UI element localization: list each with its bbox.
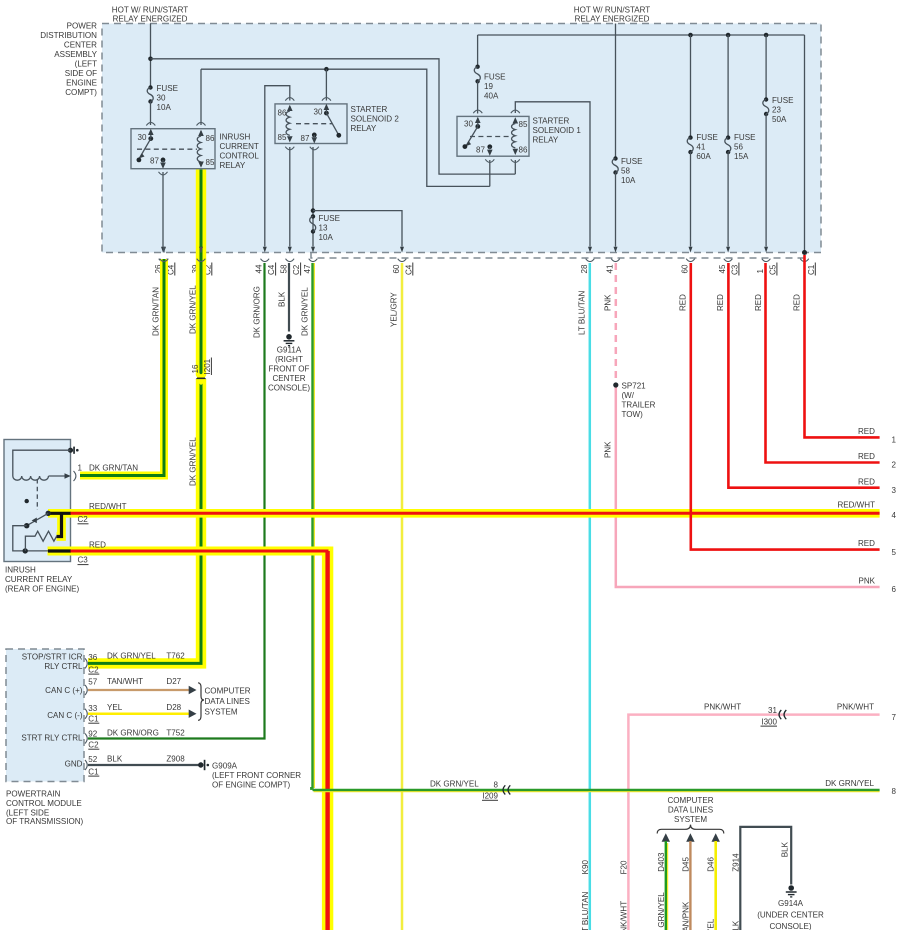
svg-text:31: 31 — [768, 706, 777, 715]
svg-text:15A: 15A — [734, 152, 749, 161]
svg-text:8: 8 — [892, 787, 897, 796]
svg-text:RED/WHT: RED/WHT — [837, 501, 875, 510]
svg-text:YEL/GRY: YEL/GRY — [390, 292, 399, 327]
svg-text:86: 86 — [519, 146, 528, 155]
svg-text:BLK: BLK — [107, 755, 123, 764]
svg-text:BLK: BLK — [277, 291, 286, 307]
svg-text:RELAY: RELAY — [533, 136, 559, 145]
svg-text:RELAY ENERGIZED: RELAY ENERGIZED — [113, 15, 188, 24]
svg-text:FUSE: FUSE — [484, 73, 506, 82]
svg-text:FUSE: FUSE — [696, 133, 718, 142]
svg-text:4: 4 — [892, 511, 897, 520]
svg-text:BLK: BLK — [781, 841, 790, 857]
svg-text:F20: F20 — [620, 860, 629, 874]
svg-text:COMPUTER: COMPUTER — [667, 796, 713, 805]
svg-text:8: 8 — [494, 781, 499, 790]
svg-text:DK GRN/TAN: DK GRN/TAN — [89, 464, 138, 473]
svg-text:10A: 10A — [319, 233, 334, 242]
svg-text:D46: D46 — [707, 857, 716, 872]
svg-text:HOT W/ RUN/START: HOT W/ RUN/START — [574, 6, 651, 15]
svg-text:C3: C3 — [730, 264, 739, 275]
svg-text:C2: C2 — [88, 740, 99, 749]
svg-text:I209: I209 — [482, 792, 498, 801]
svg-text:PNK: PNK — [603, 294, 612, 311]
svg-text:STARTER: STARTER — [351, 105, 388, 114]
svg-text:DK GRN/TAN: DK GRN/TAN — [152, 287, 161, 336]
svg-text:D45: D45 — [681, 857, 690, 872]
svg-text:87: 87 — [301, 134, 310, 143]
svg-text:(UNDER CENTER: (UNDER CENTER — [757, 911, 824, 920]
svg-text:41: 41 — [605, 264, 614, 273]
svg-text:RED: RED — [754, 294, 763, 311]
svg-text:5: 5 — [892, 548, 897, 557]
svg-text:DK GRN/YEL: DK GRN/YEL — [657, 892, 666, 930]
svg-text:57: 57 — [88, 678, 97, 687]
svg-text:TRAILER: TRAILER — [622, 401, 656, 410]
svg-text:30: 30 — [464, 120, 473, 129]
svg-text:RED: RED — [716, 294, 725, 311]
svg-text:SYSTEM: SYSTEM — [205, 707, 238, 716]
svg-text:TOW): TOW) — [622, 410, 644, 419]
svg-text:CURRENT RELAY: CURRENT RELAY — [5, 575, 73, 584]
svg-text:C2: C2 — [78, 515, 89, 524]
svg-text:Z914: Z914 — [731, 853, 740, 872]
svg-text:SIDE OF: SIDE OF — [65, 69, 97, 78]
svg-text:YEL: YEL — [707, 918, 716, 930]
svg-text:C1: C1 — [88, 767, 99, 776]
svg-text:D403: D403 — [657, 852, 666, 872]
svg-text:6: 6 — [892, 585, 897, 594]
svg-text:FUSE: FUSE — [734, 133, 756, 142]
svg-text:1: 1 — [756, 269, 765, 274]
svg-text:COMPUTER: COMPUTER — [205, 687, 251, 696]
svg-text:DK GRN/YEL: DK GRN/YEL — [300, 287, 309, 336]
svg-text:CENTER: CENTER — [272, 374, 305, 383]
svg-text:RED: RED — [858, 477, 875, 486]
svg-text:RED: RED — [858, 452, 875, 461]
svg-text:87: 87 — [150, 157, 159, 166]
svg-text:PNK/WHT: PNK/WHT — [704, 703, 741, 712]
svg-text:STOP/STRT ICR: STOP/STRT ICR — [22, 653, 83, 662]
svg-text:28: 28 — [580, 264, 589, 273]
svg-text:87: 87 — [476, 146, 485, 155]
svg-text:92: 92 — [88, 730, 97, 739]
svg-text:G911A: G911A — [277, 346, 302, 355]
svg-text:YEL: YEL — [107, 703, 123, 712]
svg-text:19: 19 — [484, 82, 493, 91]
svg-text:PNK: PNK — [603, 441, 612, 458]
svg-text:I300: I300 — [761, 717, 777, 726]
svg-text:SYSTEM: SYSTEM — [674, 815, 707, 824]
svg-text:ENGINE: ENGINE — [66, 79, 97, 88]
svg-text:FUSE: FUSE — [319, 214, 341, 223]
svg-text:DATA LINES: DATA LINES — [205, 697, 250, 706]
svg-text:DATA LINES: DATA LINES — [668, 806, 713, 815]
svg-text:85: 85 — [278, 133, 287, 142]
svg-text:DISTRIBUTION: DISTRIBUTION — [40, 31, 97, 40]
svg-text:58: 58 — [621, 167, 630, 176]
svg-text:85: 85 — [519, 120, 528, 129]
svg-text:52: 52 — [88, 755, 97, 764]
svg-text:OF TRANSMISSION): OF TRANSMISSION) — [6, 817, 84, 826]
svg-text:41: 41 — [696, 143, 705, 152]
svg-text:45: 45 — [718, 264, 727, 273]
svg-text:16: 16 — [191, 364, 200, 373]
svg-text:STRT RLY CTRL: STRT RLY CTRL — [21, 733, 83, 742]
svg-text:SOLENOID 2: SOLENOID 2 — [351, 115, 400, 124]
svg-text:47: 47 — [303, 264, 312, 273]
svg-text:COMPT): COMPT) — [65, 88, 97, 97]
svg-text:44: 44 — [255, 264, 264, 273]
svg-text:PNK/WHT: PNK/WHT — [620, 901, 629, 930]
svg-text:FUSE: FUSE — [621, 157, 643, 166]
svg-text:PNK: PNK — [858, 577, 875, 586]
svg-text:DK GRN/ORG: DK GRN/ORG — [252, 286, 261, 338]
svg-text:60: 60 — [680, 264, 689, 273]
svg-text:RED: RED — [792, 294, 801, 311]
svg-text:85: 85 — [206, 158, 215, 167]
svg-text:D28: D28 — [166, 703, 181, 712]
svg-text:G914A: G914A — [778, 899, 804, 908]
svg-text:TAN/PNK: TAN/PNK — [681, 901, 690, 930]
svg-text:CONSOLE): CONSOLE) — [769, 922, 811, 930]
svg-text:(LEFT: (LEFT — [75, 60, 97, 69]
svg-text:30: 30 — [138, 133, 147, 142]
svg-text:FUSE: FUSE — [157, 84, 179, 93]
svg-text:LT BLU/TAN: LT BLU/TAN — [578, 291, 587, 335]
svg-text:(RIGHT: (RIGHT — [275, 355, 303, 364]
svg-text:33: 33 — [88, 704, 97, 713]
svg-text:RELAY ENERGIZED: RELAY ENERGIZED — [575, 15, 650, 24]
svg-text:TAN/WHT: TAN/WHT — [107, 677, 143, 686]
svg-text:C1: C1 — [807, 264, 816, 275]
svg-text:Z908: Z908 — [166, 755, 185, 764]
svg-text:I201: I201 — [203, 358, 212, 374]
svg-text:2: 2 — [892, 461, 897, 470]
svg-text:RED: RED — [858, 539, 875, 548]
svg-text:CAN C (-): CAN C (-) — [47, 711, 83, 720]
svg-text:(LEFT FRONT CORNER: (LEFT FRONT CORNER — [212, 771, 301, 780]
svg-text:C4: C4 — [404, 264, 413, 275]
svg-text:1: 1 — [78, 464, 83, 473]
svg-text:CONTROL: CONTROL — [220, 152, 260, 161]
svg-text:3: 3 — [892, 486, 897, 495]
svg-text:INRUSH: INRUSH — [5, 565, 36, 574]
svg-text:13: 13 — [319, 224, 328, 233]
svg-text:58: 58 — [280, 264, 289, 273]
svg-text:GND: GND — [65, 760, 83, 769]
svg-text:POWERTRAIN: POWERTRAIN — [6, 789, 61, 798]
svg-text:K90: K90 — [581, 860, 590, 875]
svg-text:D27: D27 — [166, 677, 181, 686]
svg-text:RELAY: RELAY — [220, 161, 246, 170]
svg-text:POWER: POWER — [67, 22, 98, 31]
svg-text:CURRENT: CURRENT — [220, 142, 259, 151]
svg-text:CENTER: CENTER — [64, 41, 97, 50]
svg-text:40A: 40A — [484, 92, 499, 101]
svg-text:(REAR OF ENGINE): (REAR OF ENGINE) — [5, 584, 80, 593]
svg-text:86: 86 — [206, 134, 215, 143]
svg-text:DK GRN/YEL: DK GRN/YEL — [825, 779, 874, 788]
svg-text:SP721: SP721 — [622, 382, 647, 391]
svg-text:C4: C4 — [267, 264, 276, 275]
svg-text:60: 60 — [392, 264, 401, 273]
svg-text:HOT W/ RUN/START: HOT W/ RUN/START — [112, 6, 189, 15]
svg-text:56: 56 — [734, 143, 743, 152]
svg-text:50A: 50A — [772, 115, 787, 124]
svg-text:FRONT OF: FRONT OF — [269, 365, 310, 374]
svg-text:C1: C1 — [88, 714, 99, 723]
svg-text:T762: T762 — [166, 652, 185, 661]
svg-text:CONTROL MODULE: CONTROL MODULE — [6, 799, 82, 808]
svg-text:C2: C2 — [88, 665, 99, 674]
svg-text:60A: 60A — [696, 152, 711, 161]
svg-text:C2: C2 — [292, 264, 301, 275]
svg-text:23: 23 — [772, 106, 781, 115]
svg-text:(W/: (W/ — [622, 391, 635, 400]
svg-text:RED: RED — [678, 294, 687, 311]
svg-text:ASSEMBLY: ASSEMBLY — [54, 50, 97, 59]
svg-text:CONSOLE): CONSOLE) — [268, 384, 310, 393]
svg-text:RED: RED — [89, 540, 106, 549]
svg-text:RELAY: RELAY — [351, 124, 377, 133]
svg-text:C3: C3 — [78, 556, 89, 565]
svg-text:RLY CTRL: RLY CTRL — [44, 662, 83, 671]
svg-text:DK GRN/YEL: DK GRN/YEL — [107, 652, 156, 661]
svg-text:FUSE: FUSE — [772, 96, 794, 105]
svg-text:INRUSH: INRUSH — [220, 133, 251, 142]
svg-text:30: 30 — [314, 108, 323, 117]
svg-text:C5: C5 — [768, 264, 777, 275]
svg-text:RED/WHT: RED/WHT — [89, 502, 127, 511]
svg-text:T752: T752 — [166, 728, 185, 737]
svg-text:RED: RED — [858, 427, 875, 436]
svg-text:G909A: G909A — [212, 761, 238, 770]
svg-text:BLK: BLK — [731, 920, 740, 930]
svg-text:30: 30 — [157, 94, 166, 103]
svg-text:1: 1 — [892, 436, 897, 445]
svg-text:10A: 10A — [621, 176, 636, 185]
svg-text:LT BLU/TAN: LT BLU/TAN — [581, 892, 590, 930]
svg-text:SOLENOID 1: SOLENOID 1 — [533, 126, 582, 135]
svg-text:STARTER: STARTER — [533, 117, 570, 126]
svg-text:CAN C (+): CAN C (+) — [45, 686, 83, 695]
svg-text:PNK/WHT: PNK/WHT — [837, 703, 874, 712]
svg-text:36: 36 — [88, 653, 97, 662]
svg-text:10A: 10A — [157, 103, 172, 112]
svg-text:OF ENGINE COMPT): OF ENGINE COMPT) — [212, 780, 291, 789]
svg-text:DK GRN/ORG: DK GRN/ORG — [107, 728, 159, 737]
svg-text:86: 86 — [278, 109, 287, 118]
svg-text:7: 7 — [892, 713, 897, 722]
svg-text:DK GRN/YEL: DK GRN/YEL — [430, 779, 479, 788]
